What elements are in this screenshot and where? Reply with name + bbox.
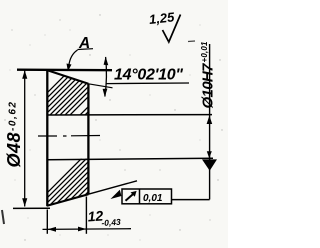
svg-text:Ø10Н7: Ø10Н7 [200, 63, 217, 109]
taper (conical) surface line [47, 70, 88, 84]
dia48 bottom extension line [13, 207, 50, 209]
hole top edge + extension line [47, 114, 212, 116]
datum A leader arrowhead [67, 64, 72, 72]
dim 12 right extension line [85, 197, 87, 234]
hole bottom edge + extension line [47, 158, 213, 160]
dia10 dimension text rotated [200, 41, 217, 109]
dim 12 left extension line [46, 210, 48, 234]
hatch bottom block [25, 150, 140, 215]
dia48 dimension text [4, 102, 24, 168]
svg-text:+0,01: +0,01 [200, 41, 209, 63]
stray mark right of symbol [188, 40, 195, 43]
leader big arrowhead at hole extension [202, 159, 217, 170]
top outer surface line with extensions [17, 68, 112, 71]
svg-text:-0,62: -0,62 [8, 102, 19, 131]
dia10 top arrowhead [207, 116, 213, 125]
dia48 bottom arrowhead [22, 198, 27, 207]
scan speckle [4, 14, 222, 240]
dia48 dimension line [24, 71, 26, 207]
taper extension thin line [88, 84, 112, 88]
dim 12 right arrowhead [78, 227, 86, 232]
bottom surface extension to frame [88, 181, 137, 194]
frame leader arrowhead on surface line [111, 190, 122, 199]
angle arc top arrowhead [104, 57, 109, 66]
tolerance frame box [122, 189, 172, 204]
svg-text:-0,43: -0,43 [101, 217, 121, 228]
centerline (axis) dash-dot [38, 135, 100, 138]
part right edge [87, 84, 89, 194]
dim 12 dimension line [43, 228, 132, 231]
angle dimension arc [105, 57, 107, 97]
tolerance frame divider [139, 189, 141, 204]
dia10 bottom small arrowhead [207, 151, 212, 158]
svg-text:14°02'10": 14°02'10" [114, 67, 183, 84]
roughness check symbol [163, 15, 181, 43]
dia10 dimension vertical line [209, 44, 211, 200]
dia48 top arrowhead [22, 70, 27, 79]
hatch top block [20, 60, 140, 130]
dim 12 left arrowhead [48, 227, 56, 232]
datum A underline [78, 48, 94, 51]
svg-text:0,01: 0,01 [143, 193, 163, 204]
stray mark bottom left [2, 210, 4, 224]
leader horizontal from frame [172, 199, 210, 201]
angle arc bottom arrowhead [103, 89, 108, 97]
svg-text:Ø48: Ø48 [4, 133, 24, 168]
part left edge [46, 70, 48, 207]
runout symbol arrow in left box [126, 193, 135, 201]
angle text shelf [106, 82, 189, 85]
svg-text:1,25: 1,25 [148, 9, 175, 27]
bottom conical surface line extended as frame leader [47, 194, 88, 206]
datum A leader [69, 50, 78, 66]
